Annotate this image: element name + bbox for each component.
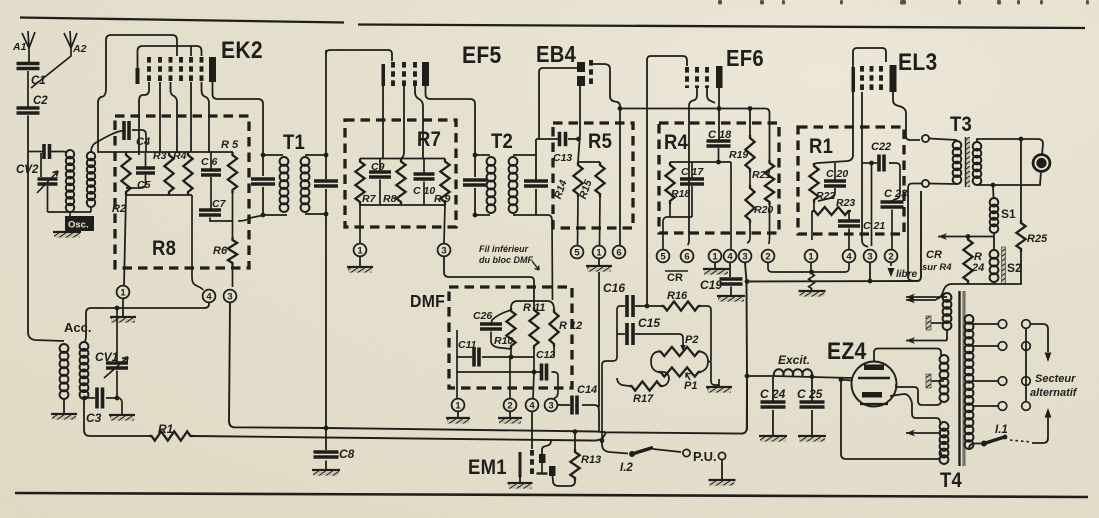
- DMF top rail: [511, 301, 554, 309]
- EZ4 anode plate 1: [864, 365, 884, 371]
- svg-text:EF5: EF5: [462, 42, 502, 69]
- svg-text:du bloc DMF: du bloc DMF: [479, 255, 533, 265]
- bottom rail R7 box: [360, 204, 445, 206]
- svg-text:sur R4: sur R4: [922, 262, 952, 273]
- EZ4 envelope circle: [852, 362, 897, 407]
- EZ4 right wires to T4: [896, 384, 941, 405]
- osc coils bottom wire: [48, 207, 92, 231]
- resistor R22: [809, 163, 818, 203]
- ground right of C3: [109, 414, 135, 416]
- svg-text:R13: R13: [581, 454, 601, 466]
- decoupling to ground from pins 1 2 4: [768, 263, 849, 273]
- pin 1 of DMF: [456, 374, 458, 398]
- svg-text:C 21: C 21: [863, 220, 885, 232]
- T1 primary top/bottom wires: [263, 155, 287, 215]
- pin 1 of R4: [709, 250, 722, 263]
- EB4 cathode wire to R15: [591, 64, 620, 245]
- svg-text:3: 3: [227, 291, 232, 302]
- DMF lower rail to C12: [457, 330, 540, 374]
- svg-text:R4: R4: [173, 150, 187, 162]
- PU ground: [721, 460, 723, 479]
- T1 primary cap: [251, 177, 275, 181]
- R19 feed wire: [749, 109, 751, 136]
- svg-text:6: 6: [616, 247, 621, 258]
- svg-text:R 12: R 12: [559, 320, 582, 332]
- svg-text:A1: A1: [12, 41, 27, 53]
- top horizontal rule left segment: [20, 18, 344, 23]
- R22 bottom junction: [812, 203, 814, 240]
- PU terminals: [683, 449, 690, 456]
- svg-text:P1: P1: [684, 380, 697, 392]
- pin 1 of R7: [359, 205, 361, 243]
- EK2 top wire cathode to grid6: [138, 46, 202, 68]
- svg-text:C8: C8: [339, 447, 355, 461]
- svg-text:C2: C2: [33, 95, 48, 107]
- upper arrow to CR: [938, 236, 994, 238]
- EK2 grid6 wire down: [202, 82, 210, 152]
- dashed box R4: [659, 123, 779, 233]
- svg-text:C16: C16: [603, 281, 625, 295]
- capacitor C7: [199, 208, 221, 212]
- pin 4 of R8: [203, 290, 216, 303]
- T3 primary terminal circles: [922, 135, 929, 142]
- wire pin3 R4 down to Excit and bus: [745, 263, 747, 431]
- EF5 cathode wire down: [382, 86, 384, 159]
- T4 winding W3: [940, 422, 949, 431]
- tube EF5 grids: [391, 62, 395, 86]
- svg-text:EZ4: EZ4: [827, 338, 867, 365]
- T4 core: [958, 291, 960, 466]
- svg-text:6: 6: [684, 251, 689, 262]
- pin 3 of R1 box: [864, 250, 877, 263]
- T4 winding W2: [940, 355, 949, 364]
- speaker terminal dot: [1033, 155, 1050, 172]
- bus B long wire: [193, 432, 606, 440]
- choke S1: [992, 185, 995, 198]
- svg-text:C1: C1: [31, 75, 46, 87]
- EK2 grid1 wire down: [139, 82, 149, 155]
- svg-text:P.U.: P.U.: [693, 449, 717, 464]
- dashed box R7: [345, 120, 456, 227]
- capacitor C6: [210, 152, 212, 170]
- osc coil top wires to C4 and R2: [91, 131, 124, 152]
- node C7 R5 R6 and wire to T1 primary bottom: [210, 193, 264, 237]
- tube EF6 anode: [716, 66, 723, 88]
- svg-text:R18: R18: [671, 188, 690, 200]
- EK2 top wire to grid4 from antenna: [98, 35, 177, 145]
- wire R7 pin3 to DMF R11 (fil inferieur): [444, 257, 534, 302]
- switch I1: [969, 444, 981, 450]
- wire antenna junction down left side: [28, 116, 64, 342]
- pin 1 of R5: [593, 246, 606, 259]
- svg-text:C22: C22: [871, 141, 891, 153]
- oscillator coil right: [87, 152, 95, 160]
- pin 4 of DMF: [526, 399, 539, 412]
- svg-text:R 9: R 9: [434, 193, 451, 205]
- svg-text:C14: C14: [577, 384, 597, 396]
- oscillator coil left: [66, 150, 74, 158]
- tube EL3 anode: [890, 65, 897, 92]
- svg-text:T2: T2: [491, 130, 513, 153]
- svg-text:R6: R6: [213, 245, 228, 257]
- wire pin3 R8 down to AVC bus: [229, 303, 326, 429]
- resistor R5 (box R8): [228, 152, 237, 193]
- B+ bus to T3: [747, 191, 921, 282]
- pin 6 of R4: [681, 250, 694, 263]
- pin 2 of DMF: [504, 399, 517, 412]
- svg-text:C13: C13: [553, 152, 572, 164]
- svg-text:C3: C3: [86, 411, 102, 425]
- EF6 anode vertical to C18: [718, 88, 720, 141]
- T4 winding W1: [943, 293, 952, 302]
- AVC bus wire: [326, 381, 747, 434]
- wire EF6 grid feed vertical: [647, 56, 687, 306]
- svg-text:DMF: DMF: [410, 291, 445, 311]
- T3 core: [966, 137, 971, 187]
- pin 6 of R5: [613, 246, 626, 259]
- svg-text:C5: C5: [137, 179, 151, 191]
- svg-text:Osc.: Osc.: [68, 220, 89, 231]
- svg-text:T4: T4: [940, 469, 962, 492]
- resistor R14: [573, 162, 582, 197]
- R6 bottom to pin3: [232, 266, 234, 287]
- svg-text:C4: C4: [136, 136, 150, 148]
- svg-text:4: 4: [529, 400, 535, 411]
- resistor R6: [228, 237, 237, 266]
- svg-text:3: 3: [548, 400, 553, 411]
- pin 1 of R8: [117, 286, 130, 299]
- ground below oscillator coils: [53, 231, 81, 233]
- capacitor C9: [379, 159, 381, 173]
- heater arrow 1: [906, 296, 947, 298]
- svg-text:R25: R25: [1027, 233, 1048, 245]
- tube EK2 cathode: [136, 68, 140, 84]
- ground below pin1 R7: [359, 257, 361, 267]
- EK2 grid2 wire down: [159, 82, 161, 152]
- capacitor C10: [423, 159, 425, 175]
- EZ4 anode plate 2: [862, 392, 882, 398]
- tube EK2 grids: [147, 57, 151, 82]
- svg-text:R8: R8: [383, 193, 397, 205]
- T3 primary coil: [929, 139, 957, 185]
- EF5 grid2 wire down: [401, 86, 404, 159]
- EM1 ground: [519, 477, 521, 482]
- antenna A2: [31, 31, 77, 88]
- terminal circles column 2: [1022, 320, 1031, 329]
- svg-text:5: 5: [660, 251, 666, 262]
- resistor R12: [549, 309, 558, 347]
- svg-text:I.2: I.2: [620, 462, 633, 474]
- svg-text:R7: R7: [417, 128, 441, 151]
- pin 3 of DMF: [545, 399, 558, 412]
- svg-text:Acc.: Acc.: [64, 320, 91, 335]
- wire pin3 R1 to B+ bus: [869, 263, 871, 282]
- ground below pin1 R8: [122, 299, 124, 318]
- svg-text:1: 1: [596, 247, 602, 258]
- capacitor C8: [325, 428, 327, 450]
- svg-text:3: 3: [742, 251, 747, 262]
- svg-text:1: 1: [357, 245, 363, 256]
- resistor R2: [121, 152, 130, 195]
- T2 primary cap: [475, 155, 490, 215]
- svg-text:S2: S2: [1007, 261, 1022, 275]
- svg-text:R1: R1: [809, 135, 833, 158]
- EK2 anode wire to T1: [213, 82, 264, 176]
- ground below Acc left coil: [63, 399, 65, 413]
- top rail R7 box: [360, 158, 445, 160]
- EF6 grid3 stub: [707, 88, 715, 103]
- svg-text:CR: CR: [667, 272, 683, 284]
- top cropped text remnants: [718, 0, 722, 5]
- pin 5 of R5: [571, 246, 584, 259]
- bottom node wire and lower arrow: [968, 252, 1021, 284]
- tube EB4 cathode: [589, 60, 593, 87]
- ground of P network: [711, 362, 719, 386]
- T3 secondary wires to speaker: [977, 139, 1043, 185]
- dashed box R1: [798, 127, 904, 234]
- T2 secondary coil: [509, 157, 518, 166]
- EM1 deflector plate: [549, 466, 556, 476]
- capacitor C2: [17, 106, 40, 110]
- pin 2 of R1 box: [885, 250, 898, 263]
- resistor R25 from speaker line: [1020, 139, 1022, 220]
- svg-text:R4: R4: [664, 131, 688, 154]
- pin 2 of R4: [762, 250, 775, 263]
- svg-text:C15: C15: [638, 316, 660, 330]
- svg-text:1: 1: [455, 400, 461, 411]
- pin 4 of R4: [724, 250, 737, 263]
- EL3 top wire: [853, 48, 886, 67]
- EZ4 cathode line: [858, 377, 890, 380]
- EL3 cathode wire to R22: [814, 92, 853, 165]
- svg-text:libre: libre: [896, 269, 918, 280]
- svg-text:2: 2: [507, 400, 512, 411]
- tube EF5 anode: [422, 62, 429, 86]
- T4 primary winding: [965, 315, 974, 324]
- pin 3 of R7: [444, 205, 445, 243]
- antenna A1: [22, 31, 35, 63]
- wire R12 bottom: [553, 347, 555, 357]
- svg-text:C 25: C 25: [797, 387, 823, 401]
- svg-text:C7: C7: [212, 198, 227, 210]
- svg-text:R8: R8: [152, 237, 176, 260]
- R14 R15 top rail: [578, 161, 600, 163]
- wire C1-C2 junction: [27, 71, 29, 108]
- oscillator series capacitor: [28, 151, 43, 153]
- svg-text:C 20: C 20: [826, 168, 848, 180]
- T2 secondary cap: [513, 139, 536, 215]
- EK2 grid5 stub: [190, 46, 192, 56]
- dashed box R8: [115, 116, 249, 268]
- svg-text:1: 1: [808, 251, 814, 262]
- wire T1 secondary bottom down to AVC bus: [325, 189, 327, 428]
- pin 1 of R1 box: [805, 250, 818, 263]
- mains lead lower with up arrow: [1045, 408, 1052, 418]
- svg-text:R3: R3: [153, 150, 167, 162]
- tube EL3 cathode: [852, 67, 856, 92]
- pin 4 of R1 box: [843, 250, 856, 263]
- EB4 anode2 wire to pin6: [578, 86, 580, 162]
- EM1 grid dashed: [530, 450, 534, 477]
- svg-text:3: 3: [441, 245, 446, 256]
- svg-text:4: 4: [846, 251, 852, 262]
- selector vertical link: [1025, 328, 1027, 402]
- Osc. label box: [65, 216, 94, 231]
- capacitor C5: [145, 152, 147, 168]
- tube EF5 cathode: [382, 64, 386, 86]
- svg-text:C 6: C 6: [201, 156, 218, 168]
- R18 C17 bottoms to pin5: [663, 204, 692, 249]
- wire R2 to pin1: [124, 195, 126, 286]
- svg-text:EB4: EB4: [536, 41, 576, 68]
- EZ4 left wire B+ out: [841, 380, 852, 381]
- EM1 grid wire to DMF pin4: [531, 412, 533, 450]
- resistor R24: [963, 237, 972, 285]
- svg-text:4: 4: [727, 251, 733, 262]
- EB4 anode1 wire to detector C13: [539, 68, 577, 139]
- resistor R9: [440, 159, 449, 206]
- svg-text:alternatif: alternatif: [1030, 387, 1078, 399]
- svg-text:CV2: CV2: [16, 164, 39, 176]
- EM1 plate wire to bus: [542, 440, 551, 454]
- svg-text:24: 24: [971, 262, 984, 274]
- dashed box DMF: [449, 287, 572, 388]
- C4 right lead down to rail: [132, 130, 146, 152]
- bottom horizontal rule: [15, 493, 1088, 497]
- resistor R20: [745, 185, 754, 223]
- EF5 grid3 wire: [415, 86, 423, 159]
- resistor R18: [665, 162, 674, 204]
- svg-text:EK2: EK2: [221, 37, 263, 64]
- R2 R3 R4 bottoms rail to pin4: [126, 195, 203, 290]
- EL3 grid1 wire down: [862, 92, 868, 247]
- svg-text:1: 1: [120, 287, 126, 298]
- R20 R21 bottoms to pins: [747, 205, 770, 244]
- resistor R21: [765, 160, 774, 205]
- svg-text:C 10: C 10: [413, 185, 435, 197]
- svg-text:CR: CR: [926, 249, 942, 261]
- ground below DMF pin1: [457, 412, 459, 419]
- svg-text:A2: A2: [72, 43, 87, 55]
- svg-text:R21: R21: [752, 169, 771, 181]
- libre arrow below pin2: [890, 263, 892, 267]
- svg-text:R19: R19: [729, 149, 748, 161]
- resistor R10: [506, 308, 515, 349]
- resistor R7: [355, 159, 364, 206]
- svg-text:2: 2: [888, 251, 893, 262]
- svg-text:R20: R20: [754, 204, 773, 216]
- pins wires R5 box: [578, 197, 601, 246]
- T1 primary coil: [280, 157, 289, 166]
- resistor R8 (in box R7): [396, 159, 405, 206]
- svg-text:EM1: EM1: [468, 456, 507, 479]
- heater arrow 3: [906, 432, 941, 434]
- EM1 target plate: [539, 454, 546, 463]
- cathode rail in R4 box: [670, 162, 731, 249]
- EF6 grid2 wire to pin6: [688, 88, 698, 245]
- T4 primary taps to terminals: [973, 323, 998, 325]
- top horizontal rule right segment: [358, 25, 1085, 29]
- svg-text:T1: T1: [283, 131, 305, 154]
- capacitor C13 and detector wire: [536, 138, 558, 140]
- svg-text:R 5: R 5: [221, 139, 239, 151]
- T1 secondary coil: [301, 157, 310, 166]
- resistor R3: [164, 152, 173, 195]
- tap hatch 1: [940, 322, 947, 324]
- terminal circles column 1: [998, 320, 1007, 329]
- choke S2 with core: [993, 237, 995, 251]
- resistor R19: [745, 135, 754, 172]
- svg-text:I.1: I.1: [995, 424, 1008, 436]
- resistor R15: [595, 162, 604, 197]
- svg-text:Secteur: Secteur: [1035, 373, 1076, 385]
- svg-text:EL3: EL3: [898, 49, 938, 76]
- svg-text:Fil inférieur: Fil inférieur: [479, 244, 529, 254]
- ground below DMF pin2: [509, 412, 511, 419]
- wire pin4 R8 to Acc coil: [84, 303, 209, 343]
- svg-text:C19: C19: [700, 278, 722, 292]
- tube EK2 anode: [209, 57, 216, 82]
- Acc right coil bottom to bus B: [84, 399, 149, 436]
- switch I2: [602, 438, 628, 454]
- tube EF6 grids: [685, 67, 689, 88]
- capacitor C1: [17, 62, 40, 66]
- EK2 grid3 wire down: [171, 82, 178, 152]
- svg-text:EF6: EF6: [726, 45, 764, 72]
- svg-text:C 23: C 23: [884, 188, 907, 200]
- T2 primary coil: [487, 157, 496, 166]
- capacitor C3: [84, 397, 95, 399]
- svg-text:S1: S1: [1001, 207, 1016, 221]
- component rail in R8 box: [126, 151, 233, 153]
- svg-text:R5: R5: [588, 130, 612, 153]
- EF5 anode wire to T2: [426, 86, 476, 177]
- svg-text:R10: R10: [494, 335, 513, 347]
- svg-text:4: 4: [206, 291, 212, 302]
- svg-text:R7: R7: [362, 193, 377, 205]
- svg-text:2: 2: [765, 251, 770, 262]
- tap hatch 2: [926, 374, 931, 388]
- T3 secondary coil: [973, 142, 982, 151]
- svg-text:C9: C9: [371, 161, 385, 173]
- ground below pin1 R4: [714, 263, 716, 269]
- mains lead upper with down arrow: [1030, 324, 1048, 352]
- EM1 electrode bar: [519, 452, 522, 477]
- svg-text:5: 5: [574, 247, 580, 258]
- wire pin1 R5 down to C14 junction: [598, 272, 600, 407]
- dashed box R5: [553, 123, 633, 228]
- EZ4 top wire to T4 winding W2: [874, 349, 941, 362]
- wire I2 to PU terminal: [653, 449, 681, 452]
- EL3 anode wire to T3: [893, 92, 920, 140]
- svg-text:R2: R2: [112, 203, 126, 215]
- svg-text:R16: R16: [667, 290, 688, 302]
- ground under pin1 R5: [598, 259, 600, 267]
- wire C22 to pin3: [871, 163, 873, 246]
- T2 bottom wire to DMF R12: [536, 215, 553, 300]
- svg-text:C26: C26: [473, 310, 492, 322]
- EK2 grid4b wire down: [190, 82, 192, 152]
- pin 3 of R8: [224, 290, 237, 303]
- heater arrow 2: [946, 330, 948, 341]
- svg-text:Excit.: Excit.: [778, 353, 810, 367]
- T1 secondary cap and side wires: [305, 155, 326, 214]
- resistor R4 (box R8): [183, 152, 192, 195]
- svg-text:1: 1: [712, 251, 718, 262]
- svg-text:R17: R17: [633, 393, 654, 405]
- svg-text:C12: C12: [536, 349, 555, 361]
- pin 3 of R4: [739, 250, 752, 263]
